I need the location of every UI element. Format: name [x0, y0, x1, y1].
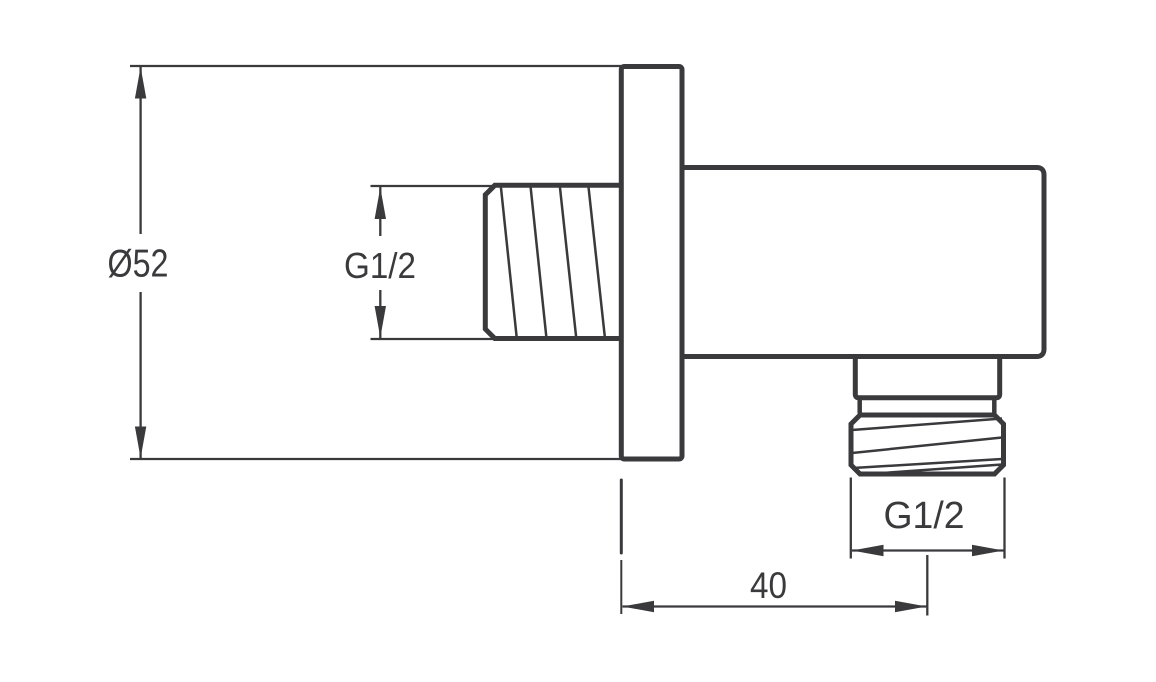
svg-text:40: 40 — [750, 565, 787, 606]
dimension Ø52 top extension line — [130, 65, 621, 67]
dimension G1/2 outlet left arrowhead — [852, 545, 884, 556]
dimension G1/2 inlet bottom extension line — [371, 338, 494, 340]
wall flange plate — [621, 67, 682, 460]
dimension G1/2 inlet line lower segment — [379, 290, 381, 338]
svg-text:G1/2: G1/2 — [884, 495, 965, 537]
dimension G1/2 inlet top extension line — [371, 185, 494, 187]
dimension 40 outlet-centre extension line — [926, 555, 928, 616]
dimension Ø52 down arrowhead — [135, 427, 146, 459]
dimension 40 right arrowhead — [895, 601, 927, 612]
dimension 40 left arrowhead — [623, 601, 655, 612]
outlet collar left edge — [857, 398, 862, 414]
dimension 40 wall-face extension line thick segment — [620, 480, 623, 553]
outlet nut thread line 4 — [861, 465, 1002, 475]
outlet nut thread line 2 — [852, 438, 1002, 454]
dimension Ø52 bottom extension line — [130, 458, 621, 460]
outlet thread nut octagon — [851, 415, 1004, 474]
dimension G1/2 inlet down arrowhead — [375, 306, 386, 338]
dimension Ø52 line upper segment — [139, 67, 141, 234]
outlet collar right edge — [992, 398, 997, 414]
dimension G1/2 inlet up arrowhead — [375, 188, 386, 220]
inlet thread line 4 — [588, 186, 605, 339]
dimension G1/2 outlet line — [852, 549, 1004, 551]
outlet nut thread line 1 — [852, 419, 1002, 431]
dimension G1/2 inlet line upper segment — [379, 187, 381, 236]
inlet pipe outline — [485, 185, 623, 338]
outlet nut thread line 3 — [853, 459, 1002, 468]
dimension Ø52 up arrowhead — [135, 67, 146, 99]
svg-text:Ø52: Ø52 — [108, 243, 169, 286]
elbow body — [681, 168, 1044, 357]
inlet thread line 2 — [531, 186, 547, 339]
dimension G1/2 outlet left extension line — [850, 478, 852, 559]
svg-text:G1/2: G1/2 — [344, 245, 416, 286]
dimension G1/2 outlet right extension line — [1003, 478, 1005, 559]
dimension Ø52 line lower segment — [139, 292, 141, 458]
dimension 40 wall-face extension line thin segment — [620, 560, 622, 614]
dimension G1/2 outlet right arrowhead — [972, 545, 1004, 556]
inlet thread line 3 — [560, 186, 577, 339]
inlet thread line 1 — [501, 186, 517, 339]
outlet stem — [855, 357, 999, 398]
dimension 40 line — [623, 605, 927, 607]
